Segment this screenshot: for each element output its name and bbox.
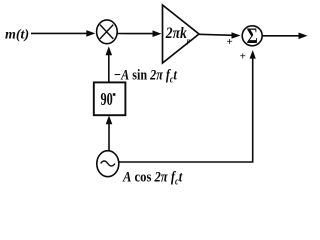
svg-text:2πk: 2πk <box>165 25 187 42</box>
svg-text:m(t): m(t) <box>5 27 29 42</box>
svg-text:Σ: Σ <box>247 24 258 49</box>
svg-text:A cos 2π fct: A cos 2π fct <box>122 168 183 186</box>
svg-text:p: p <box>186 36 191 45</box>
svg-text:−A sin 2π fct: −A sin 2π fct <box>114 66 178 85</box>
svg-text:+: + <box>227 36 233 48</box>
svg-text:+: + <box>240 51 246 63</box>
svg-text:90: 90 <box>101 91 113 110</box>
